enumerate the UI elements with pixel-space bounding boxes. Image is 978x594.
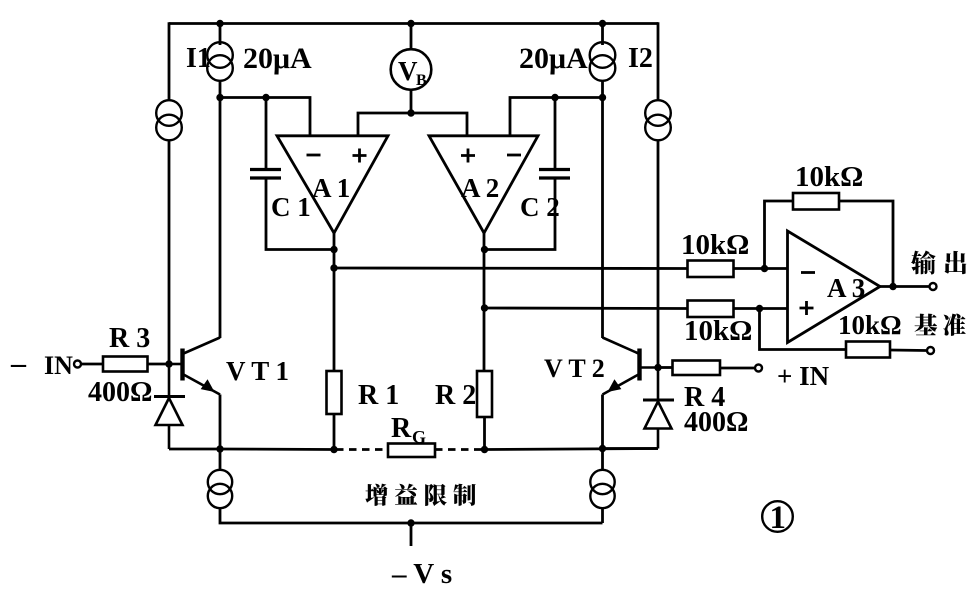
svg-text:B: B: [416, 72, 427, 89]
wire right rail mid: [657, 140, 660, 368]
svg-text:A 3: A 3: [827, 273, 865, 303]
node VT1 emitter: [216, 445, 223, 452]
wire VT1 emitter node down: [219, 449, 222, 471]
svg-text:C 2: C 2: [520, 192, 560, 222]
svg-text:10kΩ: 10kΩ: [684, 315, 752, 347]
resistor 10k reference: [846, 342, 890, 358]
node A1 feed: [330, 264, 337, 271]
wire dashed right of RG: [435, 448, 483, 451]
node VT2 emitter: [599, 445, 606, 452]
wire csR2 to bottom rail: [601, 508, 604, 523]
node C1 top: [262, 94, 269, 101]
wire I1 node to A1 minus input: [220, 98, 310, 137]
svg-text:R 3: R 3: [109, 323, 150, 354]
svg-text:10kΩ: 10kΩ: [795, 161, 863, 193]
node C2 top: [551, 94, 558, 101]
wire ref branch: [760, 309, 847, 350]
resistor R2: [477, 371, 492, 417]
wire feedback left: [765, 201, 794, 270]
wire VB bottom: [410, 90, 413, 113]
current source (right rail): [645, 100, 671, 126]
wire emitter row right: [485, 449, 659, 450]
current source (left rail): [156, 100, 182, 126]
svg-text:R 1: R 1: [358, 380, 399, 411]
voltage source VB: [391, 49, 432, 90]
wire A1 out to A3 upper resistor: [334, 267, 688, 270]
resistor R4: [673, 361, 721, 376]
figure number 1 circled: [762, 501, 793, 532]
wire VT1 emitter: [219, 395, 222, 450]
wire VB top: [410, 24, 413, 50]
terminal -IN: [74, 361, 81, 368]
svg-text:C 1: C 1: [271, 192, 311, 222]
terminal +IN: [755, 365, 762, 372]
resistor R1: [327, 371, 342, 414]
transistor VT2: [637, 349, 641, 381]
wire base node to R4: [658, 366, 673, 369]
svg-text:10kΩ: 10kΩ: [681, 229, 749, 261]
wire ref resistor to terminal: [890, 349, 926, 352]
node A3 plus: [756, 305, 763, 312]
svg-text:R 2: R 2: [435, 380, 476, 411]
wire C1 bottom: [266, 178, 334, 250]
svg-text:– V s: – V s: [391, 558, 452, 590]
op-amp A1: [277, 136, 388, 233]
wire I1 stub: [219, 24, 222, 46]
resistor RG: [388, 444, 435, 458]
node A3 output: [889, 283, 896, 290]
wire left rail upper: [168, 22, 171, 100]
node A2 feed: [481, 304, 488, 311]
svg-text:20μA: 20μA: [519, 42, 588, 75]
wire upper resistor to A3: [734, 267, 788, 270]
node I2 bottom: [599, 94, 606, 101]
wire I2 node to A2 minus input: [510, 98, 603, 137]
resistor R3: [103, 357, 148, 372]
svg-text:G: G: [412, 427, 426, 447]
node top VB: [407, 20, 414, 27]
resistor 10k upper input: [688, 261, 734, 278]
wire C1 top: [265, 98, 268, 170]
wire right rail to emitter node: [603, 447, 659, 450]
svg-text:–: –: [10, 347, 27, 380]
wire VT2 collector vertical: [601, 98, 604, 339]
capacitor C2: [539, 170, 570, 179]
wire lower resistor to A3: [734, 307, 788, 310]
wire R3 to base node: [148, 363, 170, 366]
diode D1: [154, 395, 185, 398]
wire I1 to node: [219, 80, 222, 98]
wire right rail upper: [657, 22, 660, 100]
terminal reference: [927, 347, 934, 354]
wire feedback right: [839, 201, 893, 287]
svg-text:I2: I2: [628, 43, 653, 74]
terminal output: [930, 283, 937, 290]
label reference (jizhun): [915, 314, 938, 336]
wire A1 output: [333, 231, 336, 371]
transistor VT1: [180, 349, 184, 381]
wire I2 to node: [601, 80, 604, 98]
wire left rail to emitter node: [169, 448, 220, 451]
node top I2: [599, 20, 606, 27]
wire R4 to +IN terminal: [720, 367, 754, 370]
current source below VT1: [208, 470, 232, 494]
svg-text:V T 1: V T 1: [226, 356, 289, 386]
wire top rail: [169, 22, 658, 25]
svg-text:400Ω: 400Ω: [88, 377, 152, 408]
svg-text:A 1: A 1: [312, 173, 350, 203]
wire A2 output: [483, 231, 486, 371]
node VB bottom: [407, 109, 414, 116]
node VT2 base: [654, 364, 661, 371]
node top I1: [216, 20, 223, 27]
wire left rail mid: [168, 140, 171, 364]
current source I2: [590, 42, 616, 68]
svg-text:+ IN: + IN: [777, 361, 830, 391]
label gain limit (zengyi xianzhi): [365, 484, 387, 506]
label output (shuchu): [911, 250, 936, 274]
node R2 bottom: [481, 446, 488, 453]
wire A2 out to A3 lower resistor: [485, 307, 688, 310]
wire dashed left of RG: [336, 448, 388, 451]
wire R1 bottom: [333, 414, 336, 450]
wire VT2 emitter node down: [601, 449, 604, 471]
svg-text:A 2: A 2: [461, 173, 499, 203]
resistor 10k feedback: [793, 193, 839, 210]
wire VT2 emitter: [601, 395, 604, 449]
node VT1 base: [165, 360, 172, 367]
node R1 bottom: [330, 446, 337, 453]
current source below VT2: [590, 470, 614, 494]
node I1 bottom: [216, 94, 223, 101]
op-amp A2: [429, 136, 538, 233]
diode D2: [643, 399, 674, 402]
wire emitter row left: [220, 448, 334, 451]
wire C2 bottom: [485, 178, 556, 250]
current source I1: [207, 42, 233, 68]
wire C2 top: [554, 98, 557, 170]
wire A3 output: [878, 285, 929, 288]
capacitor C1: [250, 170, 281, 179]
op-amp A3: [788, 231, 881, 343]
wire -Vs stub: [410, 523, 413, 546]
svg-text:400Ω: 400Ω: [684, 407, 748, 438]
svg-text:V: V: [398, 56, 418, 86]
wire VB node to A1 plus: [358, 113, 411, 137]
svg-text:20μA: 20μA: [243, 42, 312, 75]
svg-text:10kΩ: 10kΩ: [838, 310, 902, 340]
svg-text:1: 1: [770, 500, 787, 536]
svg-text:I1: I1: [186, 43, 211, 74]
node -Vs: [407, 519, 414, 526]
svg-text:V T 2: V T 2: [544, 354, 605, 383]
node A1 output: [330, 246, 337, 253]
wire VT1 collector: [219, 98, 222, 339]
resistor 10k lower input: [688, 301, 734, 318]
wire VB node to A2 plus: [411, 113, 467, 137]
node A3 minus: [761, 265, 768, 272]
svg-text:IN: IN: [44, 351, 73, 380]
wire I2 stub: [601, 24, 604, 46]
node A2 output: [481, 246, 488, 253]
svg-text:R: R: [391, 413, 412, 444]
wire to bottom rail left: [220, 508, 603, 523]
wire -IN to R3: [82, 363, 104, 366]
wire R2 bottom: [483, 417, 486, 450]
